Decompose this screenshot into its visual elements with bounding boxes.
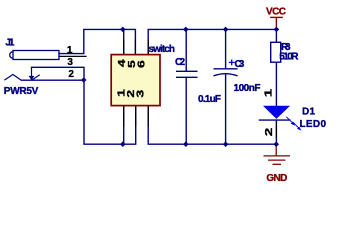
svg-text:3: 3 xyxy=(136,90,147,98)
svg-text:510R: 510R xyxy=(279,51,299,62)
svg-text:0.1uF: 0.1uF xyxy=(198,94,221,105)
svg-text:1: 1 xyxy=(263,88,274,97)
svg-text:LED0: LED0 xyxy=(300,119,327,130)
svg-text:C2: C2 xyxy=(175,57,185,68)
svg-text:VCC: VCC xyxy=(266,6,286,17)
svg-text:1: 1 xyxy=(67,45,73,56)
svg-text:C3: C3 xyxy=(235,59,245,70)
svg-text:PWR5V: PWR5V xyxy=(4,86,39,97)
svg-text:2: 2 xyxy=(68,69,74,80)
svg-text:J1: J1 xyxy=(5,38,14,49)
svg-text:3: 3 xyxy=(67,57,73,68)
svg-text:GND: GND xyxy=(266,173,287,184)
svg-text:6: 6 xyxy=(137,60,148,68)
svg-text:D1: D1 xyxy=(302,106,315,117)
svg-text:100nF: 100nF xyxy=(234,83,261,94)
svg-text:2: 2 xyxy=(264,127,275,136)
svg-text:switch: switch xyxy=(149,44,176,55)
